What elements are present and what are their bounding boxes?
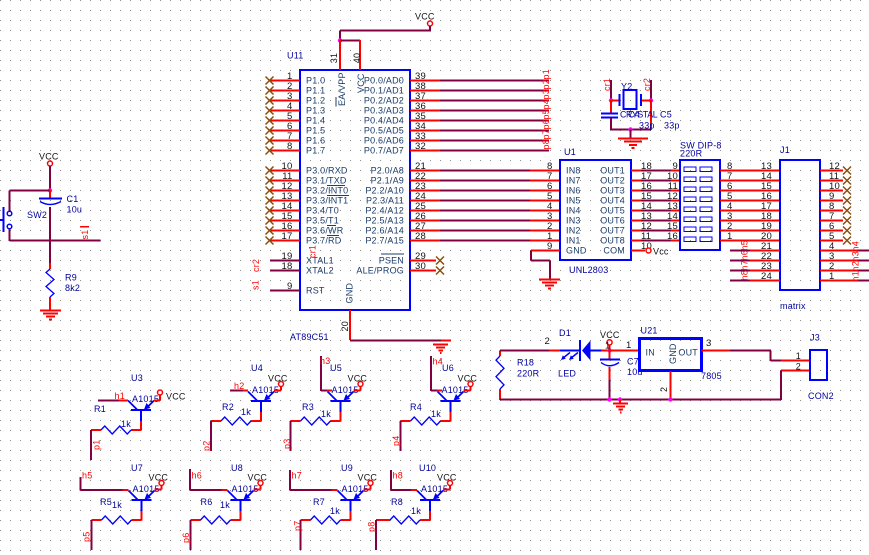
svg-text:h5: h5 [740, 240, 750, 250]
svg-text:p4: p4 [541, 99, 551, 109]
svg-text:17: 17 [282, 231, 293, 242]
svg-text:C5: C5 [660, 110, 672, 120]
svg-text:U7: U7 [131, 463, 143, 473]
svg-text:h1: h1 [115, 391, 125, 401]
svg-text:VCC: VCC [248, 473, 268, 483]
svg-text:p5: p5 [541, 109, 551, 119]
svg-text:P2.5/A13: P2.5/A13 [365, 216, 404, 226]
svg-text:p8: p8 [541, 139, 551, 149]
svg-text:h7: h7 [292, 471, 302, 481]
svg-text:9: 9 [287, 281, 292, 292]
svg-text:OUT: OUT [678, 348, 698, 358]
svg-text:P2.7/A15: P2.7/A15 [365, 236, 404, 246]
svg-text:h4: h4 [433, 357, 443, 367]
svg-text:OUT7: OUT7 [600, 226, 625, 236]
svg-text:h6: h6 [740, 250, 750, 260]
svg-text:D1: D1 [559, 328, 571, 338]
svg-text:1k: 1k [112, 500, 122, 510]
svg-text:P1.7: P1.7 [306, 146, 325, 156]
svg-text:s1: s1 [251, 280, 261, 290]
svg-text:VCC: VCC [458, 374, 478, 384]
svg-text:P3.1/TXD: P3.1/TXD [306, 176, 347, 186]
svg-text:IN6: IN6 [566, 186, 581, 196]
svg-text:31: 31 [329, 53, 339, 63]
svg-text:R4: R4 [410, 402, 422, 412]
svg-text:P3.4/T0: P3.4/T0 [306, 206, 339, 216]
svg-text:33p: 33p [664, 121, 680, 131]
svg-text:VCC: VCC [600, 330, 620, 340]
svg-text:P2.0/A8: P2.0/A8 [371, 166, 404, 176]
svg-text:XTAL2: XTAL2 [306, 266, 334, 276]
svg-text:IN2: IN2 [566, 226, 581, 236]
svg-text:1k: 1k [321, 409, 331, 419]
svg-text:U9: U9 [341, 463, 353, 473]
svg-text:P3.3/INT1: P3.3/INT1 [306, 196, 348, 206]
svg-text:VCC: VCC [149, 473, 169, 483]
svg-text:P1.0: P1.0 [306, 76, 325, 86]
svg-text:16: 16 [667, 231, 678, 242]
svg-text:IN8: IN8 [566, 166, 581, 176]
svg-text:P0.3/AD3: P0.3/AD3 [364, 106, 404, 116]
svg-text:IN7: IN7 [566, 176, 581, 186]
svg-text:1k: 1k [241, 407, 251, 417]
svg-text:1: 1 [796, 351, 801, 361]
svg-text:P1.4: P1.4 [306, 116, 325, 126]
svg-text:SW2: SW2 [27, 210, 47, 220]
svg-text:R7: R7 [313, 497, 325, 507]
svg-text:p7: p7 [541, 129, 551, 139]
svg-text:C1: C1 [67, 194, 79, 204]
svg-text:R1: R1 [94, 404, 106, 414]
svg-text:VCC: VCC [415, 12, 435, 22]
svg-text:GND: GND [345, 283, 355, 304]
svg-text:cr1: cr1 [308, 245, 318, 258]
svg-text:1k: 1k [411, 506, 421, 516]
svg-text:18: 18 [282, 261, 293, 272]
svg-text:10u: 10u [67, 205, 83, 215]
svg-text:2: 2 [796, 362, 801, 372]
svg-text:VCC: VCC [437, 473, 457, 483]
svg-text:20: 20 [340, 321, 350, 331]
svg-text:h5: h5 [82, 471, 92, 481]
svg-text:R5: R5 [100, 497, 112, 507]
svg-text:1: 1 [829, 271, 834, 282]
svg-text:OUT3: OUT3 [600, 186, 625, 196]
svg-text:U21: U21 [641, 326, 658, 336]
svg-text:cr2: cr2 [642, 78, 652, 91]
svg-text:P2.3/A11: P2.3/A11 [366, 196, 404, 206]
svg-text:s1: s1 [80, 230, 90, 240]
svg-text:30: 30 [415, 261, 426, 272]
svg-text:A1015: A1015 [132, 394, 159, 404]
svg-text:P1.1: P1.1 [306, 86, 325, 96]
svg-text:Y2: Y2 [621, 82, 632, 92]
svg-text:U6: U6 [442, 363, 454, 373]
svg-text:R2: R2 [222, 402, 234, 412]
svg-text:8k2: 8k2 [65, 283, 80, 293]
svg-text:P3.0/RXD: P3.0/RXD [306, 166, 348, 176]
svg-text:IN4: IN4 [566, 206, 581, 216]
svg-text:P3.6/WR: P3.6/WR [306, 226, 344, 236]
svg-text:P0.6/AD6: P0.6/AD6 [364, 136, 404, 146]
svg-text:P1.2: P1.2 [306, 96, 325, 106]
svg-text:p6: p6 [541, 119, 551, 129]
svg-text:U11: U11 [287, 51, 303, 61]
svg-text:R6: R6 [201, 497, 213, 507]
svg-text:VCC: VCC [356, 73, 366, 93]
svg-text:1k: 1k [220, 500, 230, 510]
svg-text:VCC: VCC [348, 374, 368, 384]
svg-text:P3.5/T1: P3.5/T1 [306, 216, 339, 226]
svg-text:IN3: IN3 [566, 216, 581, 226]
svg-text:h4: h4 [851, 241, 861, 251]
svg-text:40: 40 [352, 53, 362, 63]
svg-text:P2.1/A9: P2.1/A9 [371, 176, 404, 186]
svg-text:OUT4: OUT4 [600, 196, 625, 206]
svg-text:h7: h7 [740, 260, 750, 270]
svg-text:220R: 220R [517, 369, 540, 379]
svg-text:2: 2 [659, 387, 669, 392]
svg-text:U8: U8 [231, 463, 243, 473]
svg-text:U5: U5 [330, 363, 342, 373]
svg-text:R18: R18 [517, 358, 534, 368]
svg-text:PSEN: PSEN [379, 256, 404, 266]
svg-text:OUT2: OUT2 [600, 176, 625, 186]
svg-text:P0.4/AD4: P0.4/AD4 [364, 116, 404, 126]
svg-text:P1.6: P1.6 [306, 136, 325, 146]
svg-text:h8: h8 [740, 270, 750, 280]
svg-text:P3.2/INT0: P3.2/INT0 [306, 186, 348, 196]
svg-text:p3: p3 [282, 439, 292, 449]
svg-text:h3: h3 [851, 251, 861, 261]
svg-text:C4: C4 [628, 110, 640, 120]
svg-text:h2: h2 [234, 381, 244, 391]
svg-text:1k: 1k [330, 506, 340, 516]
svg-text:P0.1/AD1: P0.1/AD1 [364, 86, 404, 96]
svg-text:AT89C51: AT89C51 [290, 332, 329, 342]
svg-text:R9: R9 [65, 273, 77, 283]
svg-text:P2.6/A14: P2.6/A14 [365, 226, 404, 236]
svg-text:EA/VPP: EA/VPP [337, 72, 347, 106]
svg-text:p7: p7 [293, 521, 303, 531]
svg-text:ALE/PROG: ALE/PROG [356, 266, 404, 276]
svg-text:IN1: IN1 [566, 236, 581, 246]
svg-text:33p: 33p [639, 121, 655, 131]
svg-text:p3: p3 [541, 89, 551, 99]
svg-text:8: 8 [287, 141, 292, 152]
svg-text:p4: p4 [391, 436, 401, 446]
svg-text:h8: h8 [393, 471, 403, 481]
svg-text:p1: p1 [92, 440, 102, 450]
svg-text:P3.7/RD: P3.7/RD [306, 236, 342, 246]
svg-text:U1: U1 [564, 147, 576, 157]
svg-text:OUT8: OUT8 [600, 236, 625, 246]
svg-text:VCC: VCC [268, 374, 288, 384]
svg-text:1k: 1k [121, 419, 131, 429]
svg-text:1: 1 [626, 340, 631, 351]
svg-text:J1: J1 [780, 145, 790, 155]
svg-text:C7: C7 [627, 357, 639, 367]
svg-text:h2: h2 [851, 261, 861, 271]
svg-text:P0.2/AD2: P0.2/AD2 [364, 96, 404, 106]
svg-text:P0.0/AD0: P0.0/AD0 [364, 76, 404, 86]
svg-text:GND: GND [566, 246, 587, 256]
svg-text:p5: p5 [82, 532, 92, 542]
svg-text:OUT1: OUT1 [600, 166, 625, 176]
svg-text:P1.3: P1.3 [306, 106, 325, 116]
svg-text:220R: 220R [680, 149, 703, 159]
svg-text:VCC: VCC [39, 152, 59, 162]
svg-text:R8: R8 [391, 497, 403, 507]
svg-text:RST: RST [306, 286, 325, 296]
svg-text:p1: p1 [541, 69, 551, 79]
svg-text:p8: p8 [367, 522, 377, 532]
svg-text:LED: LED [558, 369, 576, 379]
svg-text:h6: h6 [192, 471, 202, 481]
svg-text:cr2: cr2 [251, 259, 261, 272]
svg-text:GND: GND [668, 343, 678, 364]
svg-text:28: 28 [415, 231, 426, 242]
svg-text:P0.5/AD5: P0.5/AD5 [364, 126, 404, 136]
svg-text:matrix: matrix [780, 301, 806, 311]
svg-text:24: 24 [761, 271, 772, 282]
svg-text:COM: COM [603, 246, 625, 256]
svg-text:2: 2 [545, 336, 550, 347]
svg-text:7805: 7805 [701, 371, 722, 381]
svg-text:h1: h1 [851, 271, 861, 281]
svg-text:P2.4/A12: P2.4/A12 [365, 206, 404, 216]
svg-text:P0.7/AD7: P0.7/AD7 [364, 146, 404, 156]
svg-text:3: 3 [706, 338, 711, 349]
svg-text:p2: p2 [202, 441, 212, 451]
svg-text:p2: p2 [541, 79, 551, 89]
svg-text:Vcc: Vcc [653, 247, 669, 257]
svg-text:UNL2803: UNL2803 [569, 265, 608, 275]
svg-text:32: 32 [415, 141, 426, 152]
svg-text:IN5: IN5 [566, 196, 581, 206]
svg-text:CON2: CON2 [808, 391, 834, 401]
svg-text:OUT6: OUT6 [600, 216, 625, 226]
svg-text:P2.2/A10: P2.2/A10 [365, 186, 404, 196]
svg-text:R3: R3 [302, 402, 314, 412]
svg-text:U4: U4 [251, 363, 263, 373]
svg-text:cr1: cr1 [602, 78, 612, 91]
svg-text:IN: IN [646, 348, 655, 358]
svg-text:OUT5: OUT5 [600, 206, 625, 216]
svg-text:VCC: VCC [166, 392, 186, 402]
svg-text:U3: U3 [131, 373, 143, 383]
svg-text:h3: h3 [320, 356, 330, 366]
svg-text:1k: 1k [431, 409, 441, 419]
svg-text:P1.5: P1.5 [306, 126, 325, 136]
svg-text:J3: J3 [810, 333, 820, 343]
svg-text:p6: p6 [181, 533, 191, 543]
svg-text:VCC: VCC [358, 473, 378, 483]
svg-text:U10: U10 [419, 463, 436, 473]
